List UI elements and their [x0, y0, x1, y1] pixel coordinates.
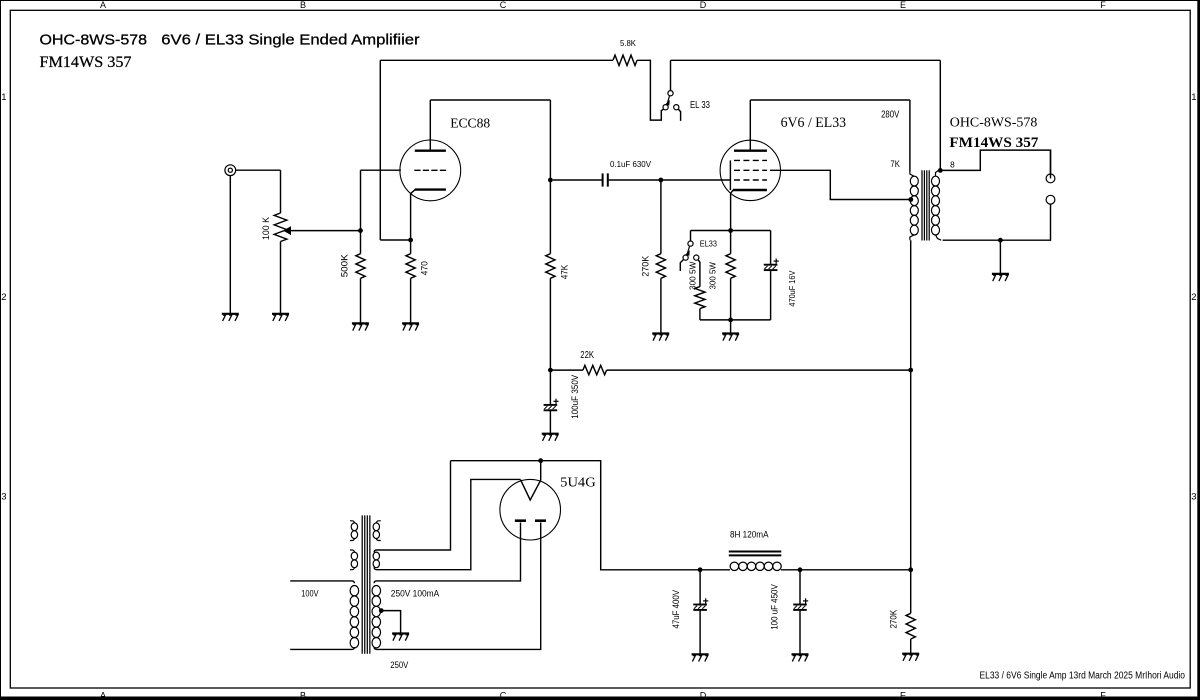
svg-text:D: D [700, 690, 707, 700]
svg-text:100 uF 450V: 100 uF 450V [769, 584, 779, 630]
svg-text:2: 2 [1191, 292, 1196, 303]
wire feedback top rail right [671, 59, 941, 61]
ground 270K bleeder [902, 654, 919, 661]
svg-text:280V: 280V [881, 110, 899, 121]
wire filament right arm [540, 461, 542, 481]
svg-text:300 5W: 300 5W [689, 261, 698, 290]
ground 270K [652, 334, 669, 341]
ground cathode network [722, 320, 739, 341]
tube ECC88 [400, 100, 491, 240]
wire grid node to 6V6 [661, 179, 731, 181]
svg-text:0.1uF 630V: 0.1uF 630V [610, 159, 651, 169]
svg-text:470: 470 [419, 261, 429, 275]
wire feedback top rail left [380, 59, 613, 61]
switch EL 33 feedback [663, 91, 710, 111]
wire switch top to rail [670, 60, 672, 90]
svg-text:D: D [700, 0, 707, 10]
tube 6V6 / EL33 [720, 100, 846, 231]
ground 100uF 450V [792, 654, 809, 661]
svg-text:6V6 / EL33: 6V6 / EL33 [781, 115, 847, 131]
wire HV top to plate [374, 523, 520, 584]
svg-text:47K: 47K [559, 265, 569, 280]
wire 6V6 cathode rail [691, 230, 771, 232]
choke 8H 120mA [729, 530, 782, 571]
wire feedback to 8ohm tap [939, 60, 941, 170]
svg-text:7K: 7K [890, 159, 900, 169]
junction UL tap [908, 197, 913, 202]
wire choke to 100uF node [781, 569, 800, 571]
svg-text:470uF 16V: 470uF 16V [788, 270, 797, 307]
svg-text:5.8K: 5.8K [620, 38, 636, 48]
junction cathode node [728, 228, 733, 233]
junction filament tap [538, 458, 543, 463]
svg-text:C: C [500, 690, 507, 700]
capacitor 0.1uF 630V [553, 159, 661, 187]
junction decoupling node [548, 368, 553, 373]
wire jack to ground [229, 176, 231, 314]
svg-text:8H 120mA: 8H 120mA [730, 530, 769, 540]
wire 5.8K to switch [637, 60, 664, 120]
svg-text:B: B [300, 690, 306, 700]
svg-text:300 5W: 300 5W [709, 262, 718, 290]
svg-text:8: 8 [950, 159, 955, 169]
capacitor 470uF 16V [764, 231, 797, 320]
svg-text:100V: 100V [301, 588, 318, 598]
ground secondary [992, 274, 1009, 281]
svg-text:500K: 500K [340, 254, 350, 277]
wire cathode switch drop [690, 231, 692, 242]
svg-text:3: 3 [1, 492, 6, 503]
svg-text:100uF 350V: 100uF 350V [570, 375, 580, 419]
transformer power [350, 515, 381, 653]
resistor 22K dropper [550, 350, 910, 375]
junction 6V6 grid node [659, 178, 664, 183]
svg-text:5U4G: 5U4G [560, 475, 596, 490]
ground 500K [352, 323, 369, 330]
svg-text:A: A [100, 690, 106, 700]
wire grid net to ECC88 [361, 169, 401, 171]
junction speaker ground node [998, 238, 1003, 243]
wire 6V6 plate rail [750, 99, 910, 101]
wire B+ primary riser [910, 240, 912, 570]
svg-text:3: 3 [1191, 492, 1196, 503]
input jack J1 [225, 165, 236, 176]
junction B+ rail node [908, 567, 913, 572]
wire ECC88 plate rail [430, 99, 550, 101]
wire center tap [380, 611, 401, 633]
junction 8ohm tap [938, 168, 943, 173]
svg-text:22K: 22K [580, 350, 594, 361]
junction ECC88 cathode feedback node [408, 238, 413, 243]
svg-text:B: B [300, 0, 306, 10]
wire switch open stub [678, 109, 680, 121]
junction plate node [548, 178, 553, 183]
junction wiper node [358, 228, 363, 233]
wire 100V primary top [290, 581, 354, 583]
svg-text:250V 100mA: 250V 100mA [391, 588, 440, 598]
switch EL33 cathode [683, 239, 717, 260]
ground center tap [392, 634, 409, 641]
svg-text:FM14WS 357: FM14WS 357 [40, 54, 132, 71]
wire wiper to grid net [360, 170, 362, 230]
tube 5U4G [500, 475, 596, 540]
svg-text:100 K: 100 K [261, 217, 271, 240]
resistor 47K plate load [546, 180, 570, 370]
ground 47uF [692, 654, 709, 661]
svg-text:A: A [100, 0, 106, 10]
resistor 270K grid leak [641, 180, 666, 333]
svg-text:6V6 / EL33 Single Ended Amplif: 6V6 / EL33 Single Ended Amplifiier [161, 33, 419, 49]
svg-text:OHC-8WS-578: OHC-8WS-578 [950, 114, 1038, 129]
speaker terminal + [1046, 174, 1055, 183]
wire secondary return [943, 204, 1051, 240]
capacitor 47uF 400V [671, 570, 708, 654]
capacitor 100uF 350V [544, 370, 580, 433]
junction B+ 22K node [908, 368, 913, 373]
potentiometer 100 K [261, 170, 361, 313]
svg-text:1: 1 [1, 92, 6, 103]
wire filter rail right [800, 569, 911, 571]
ground 100uF 350V [542, 434, 559, 441]
svg-text:FM14WS 357: FM14WS 357 [949, 135, 1038, 151]
ground 470 [402, 323, 419, 330]
resistor 500K [340, 231, 366, 323]
wire rectifier output rail [451, 461, 701, 570]
svg-text:ECC88: ECC88 [450, 115, 490, 130]
svg-text:E: E [900, 0, 906, 10]
wire cathode bottom rail [731, 319, 771, 321]
wire 5V bottom to filament [374, 479, 520, 569]
svg-text:270K: 270K [888, 610, 898, 629]
junction cathode bottom node [728, 318, 733, 323]
resistor 300 5W cathode [709, 231, 736, 320]
svg-text:2: 2 [1, 292, 6, 303]
junction 100uF node [798, 567, 803, 572]
wire secondary to terminals [940, 150, 1050, 174]
wire HV bottom to plate [374, 523, 541, 650]
svg-text:F: F [1100, 690, 1106, 700]
resistor 270K bleeder [888, 570, 915, 653]
capacitor 100 uF 450V [769, 570, 808, 654]
wire switch to 300 5W [698, 260, 700, 287]
wire plate rail down to coupling node [549, 100, 551, 180]
resistor 5.8K feedback [613, 38, 637, 66]
svg-text:250V: 250V [390, 660, 408, 670]
svg-text:EL33: EL33 [700, 239, 717, 248]
resistor 300 5W switched [689, 261, 731, 320]
wire 100V primary bottom [290, 647, 354, 649]
svg-text:E: E [900, 690, 906, 700]
junction PT center tap [379, 608, 384, 613]
svg-text:EL 33: EL 33 [690, 100, 710, 111]
svg-text:OHC-8WS-578: OHC-8WS-578 [40, 33, 148, 49]
svg-text:47uF 400V: 47uF 400V [671, 590, 681, 629]
svg-text:1: 1 [1191, 92, 1196, 103]
wire to secondary ground [999, 240, 1001, 273]
wire feedback to cathode [380, 239, 410, 241]
svg-text:F: F [1100, 0, 1106, 10]
wire jack to pot [236, 169, 281, 171]
resistor 470 cathode [406, 240, 429, 323]
ground pot [272, 314, 289, 321]
wire switch stub open [680, 260, 683, 271]
svg-text:270K: 270K [641, 256, 651, 277]
svg-text:EL33 / 6V6 Single Amp 13rd Mar: EL33 / 6V6 Single Amp 13rd March 2025 Mr… [980, 671, 1186, 682]
label title OHC-8WS-578 6V6 / EL33 Single Ended Amplifiier [40, 33, 420, 49]
label FM14WS 357 [40, 54, 132, 71]
wire feedback riser [379, 60, 381, 240]
wire 6V6 screen to UL tap [770, 170, 911, 199]
svg-text:C: C [500, 0, 507, 10]
ground jack [222, 314, 239, 321]
transformer output primary/secondary [890, 100, 941, 241]
wire 47uF node to choke [700, 569, 730, 571]
speaker terminal - [1046, 195, 1055, 204]
junction 47uF node [698, 567, 703, 572]
wire 5V top to rail [374, 461, 450, 553]
